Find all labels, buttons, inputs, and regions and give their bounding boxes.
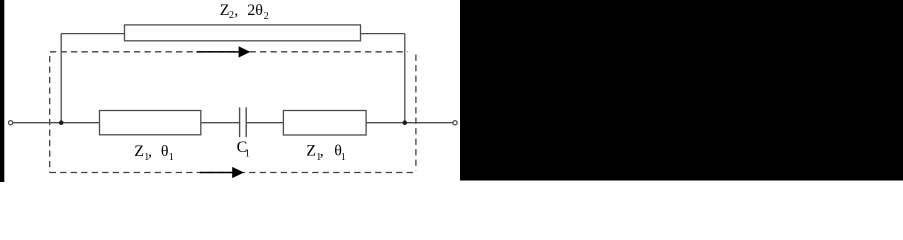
svg-text:1: 1 (245, 149, 250, 160)
capacitor C1 left plate (239, 107, 241, 137)
label Z1, theta1 (right series line value) (306, 143, 346, 163)
node A junction dot (59, 120, 64, 125)
top direction arrow shaft (197, 51, 242, 53)
svg-text:2θ: 2θ (247, 2, 263, 19)
label Z1, theta1 (left series line value) (134, 143, 174, 163)
wire right vertical down to node B (404, 34, 406, 123)
svg-text:Z: Z (134, 143, 144, 160)
svg-text:Z: Z (306, 143, 316, 160)
wire Z2 to top-right corner (361, 33, 405, 35)
transmission line Z1 (right series) (283, 111, 366, 136)
bottom direction arrow head (232, 167, 244, 178)
port P2 (right terminal) (453, 121, 457, 125)
port P1 (left terminal) (9, 121, 13, 125)
svg-text:,: , (234, 2, 238, 19)
capacitor C1 right plate (245, 107, 247, 137)
svg-text:θ: θ (161, 143, 169, 160)
dashed unit-cell boundary box: right edge (415, 55, 417, 171)
dashed unit-cell boundary box: left edge (49, 52, 51, 173)
top direction arrow head (239, 46, 251, 57)
wire Z1 left to capacitor C1 (201, 122, 239, 124)
wire node A up (left vertical) (60, 34, 62, 123)
wire capacitor C1 to Z1 right (247, 122, 284, 124)
dashed unit-cell boundary box: top edge (50, 51, 408, 53)
svg-text:1: 1 (341, 152, 346, 163)
transmission line Z2 (top stub) (125, 25, 361, 41)
wire Z1 right to node B (366, 122, 405, 124)
wire top-left horizontal to Z2 line (61, 33, 124, 35)
node B junction dot (403, 120, 408, 125)
figure border bar (left page edge) (0, 0, 4, 182)
svg-text:,: , (320, 143, 324, 160)
bottom direction arrow shaft (200, 172, 235, 174)
svg-text:1: 1 (169, 152, 174, 163)
wire P1 to node A (13, 122, 61, 124)
label C1 (capacitor value) (237, 139, 250, 160)
redacted black region (right) (460, 0, 903, 181)
label Z2, 2theta2 (top stub value) (220, 2, 269, 22)
wire node B to port P2 (405, 122, 453, 124)
transmission line Z1 (left series) (100, 111, 201, 135)
svg-text:,: , (148, 143, 152, 160)
wire node A to Z1 left (61, 122, 99, 124)
svg-text:2: 2 (264, 11, 269, 22)
dashed unit-cell boundary box: bottom edge (50, 172, 415, 174)
